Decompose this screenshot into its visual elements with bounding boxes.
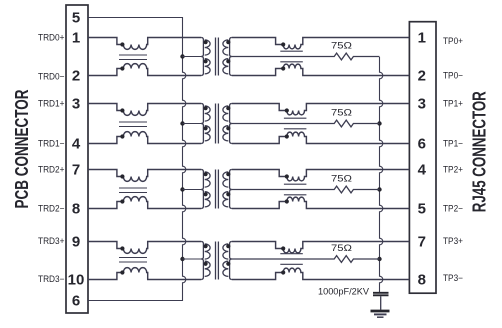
svg-text:TRD0−: TRD0−	[38, 72, 65, 82]
transformer T1	[201, 38, 232, 76]
svg-text:1: 1	[72, 30, 80, 47]
svg-text:TRD0+: TRD0+	[38, 33, 65, 43]
svg-text:TP0+: TP0+	[443, 36, 463, 46]
svg-text:3: 3	[418, 96, 426, 113]
resistor R4 75 ohm on secondary center tap	[232, 243, 380, 262]
svg-text:75Ω: 75Ω	[331, 174, 352, 185]
svg-text:TRD3+: TRD3+	[38, 236, 65, 246]
svg-text:PCB CONNECTOR: PCB CONNECTOR	[11, 90, 32, 209]
termination rail to capacitor	[380, 57, 383, 292]
svg-text:4: 4	[418, 162, 427, 179]
svg-text:6: 6	[72, 293, 80, 310]
primary center-tap stub to rail	[183, 189, 202, 191]
svg-text:TP3+: TP3+	[443, 236, 463, 246]
svg-text:2: 2	[418, 68, 426, 85]
label RJ45 CONNECTOR	[468, 91, 489, 212]
primary center-tap stub to rail	[183, 258, 202, 260]
svg-text:2: 2	[72, 68, 80, 85]
common-mode choke L4 (PCB side)	[88, 242, 201, 280]
svg-text:RJ45 CONNECTOR: RJ45 CONNECTOR	[468, 91, 489, 212]
svg-text:TRD2+: TRD2+	[38, 165, 65, 175]
PCB connector J1	[66, 5, 88, 313]
resistor R3 75 ohm on secondary center tap	[232, 174, 380, 193]
svg-text:TP0−: TP0−	[443, 71, 463, 81]
svg-text:TP1+: TP1+	[443, 99, 463, 109]
svg-text:8: 8	[418, 272, 426, 289]
svg-text:1: 1	[418, 30, 426, 47]
svg-text:7: 7	[418, 234, 426, 251]
wire secondary to RJ45 (+) with common-mode choke L7	[232, 170, 410, 209]
svg-text:9: 9	[72, 234, 80, 251]
svg-text:TP1−: TP1−	[443, 139, 463, 149]
svg-text:1000pF/2KV: 1000pF/2KV	[318, 287, 370, 298]
label PCB CONNECTOR	[11, 90, 32, 209]
svg-text:10: 10	[68, 272, 85, 289]
svg-text:5: 5	[72, 10, 80, 27]
svg-text:8: 8	[72, 201, 80, 218]
PCB connector pin numbers	[68, 10, 85, 310]
junction dots on left rail	[180, 54, 184, 261]
transformer T4	[201, 242, 232, 280]
svg-text:7: 7	[72, 162, 80, 179]
wire secondary to RJ45 (+) with common-mode choke L5	[232, 38, 410, 76]
svg-text:TRD3−: TRD3−	[38, 274, 65, 284]
junction dots on termination rail	[377, 121, 381, 261]
RJ45 connector pin numbers	[418, 30, 427, 289]
common-mode choke L1 (PCB side)	[88, 38, 201, 76]
svg-text:75Ω: 75Ω	[331, 243, 352, 254]
transformer T2	[201, 104, 232, 144]
svg-text:TP3−: TP3−	[443, 273, 463, 283]
node labels TRD0..TRD3	[38, 33, 65, 285]
wire secondary to RJ45 (+) with common-mode choke L8	[232, 242, 410, 280]
primary center-tap stub to rail	[183, 123, 202, 125]
resistor R2 75 ohm on secondary center tap	[232, 108, 380, 127]
svg-text:5: 5	[418, 201, 426, 218]
common-mode choke L2 (PCB side)	[88, 104, 201, 144]
capacitor C1 1000pF/2KV	[318, 287, 389, 310]
svg-text:6: 6	[418, 136, 426, 153]
chassis ground	[371, 311, 390, 317]
svg-text:TP2−: TP2−	[443, 204, 463, 214]
svg-text:TRD1−: TRD1−	[38, 139, 65, 149]
svg-text:3: 3	[72, 96, 80, 113]
svg-text:75Ω: 75Ω	[331, 108, 352, 119]
RJ45 connector J2	[409, 22, 436, 294]
transformer T3	[201, 170, 232, 209]
svg-text:75Ω: 75Ω	[331, 41, 352, 52]
svg-text:4: 4	[72, 136, 81, 153]
node labels TP0..TP3	[443, 36, 463, 283]
svg-text:TP2+: TP2+	[443, 165, 463, 175]
wire pin5/pin6 primary center-tap rail	[88, 18, 186, 301]
resistor R1 75 ohm on secondary center tap	[232, 41, 380, 60]
wire secondary to RJ45 (+) with common-mode choke L6	[232, 104, 410, 144]
primary center-tap stub to rail	[183, 56, 202, 58]
svg-text:TRD2−: TRD2−	[38, 204, 65, 214]
common-mode choke L3 (PCB side)	[88, 170, 201, 209]
svg-text:TRD1+: TRD1+	[38, 99, 65, 109]
